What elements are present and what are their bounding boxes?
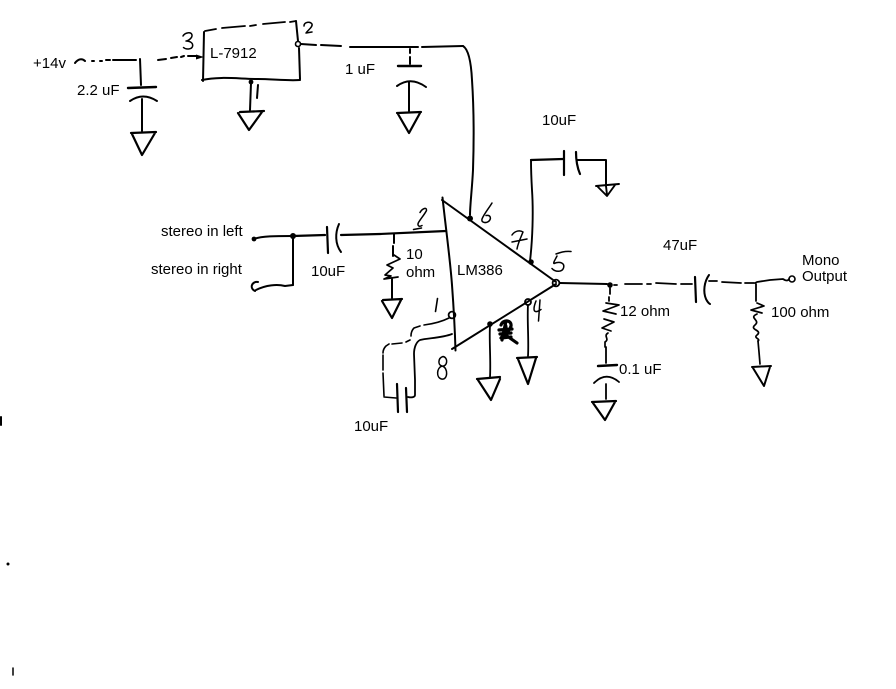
svg-text:10uF: 10uF xyxy=(311,263,345,280)
wire corner down to pin 6 of LM386 xyxy=(463,46,474,215)
resistor R3 100 ohm lead xyxy=(755,284,757,301)
capacitor 10uF (pin7 bypass) plates xyxy=(563,151,565,175)
ground for R3 xyxy=(752,366,771,386)
pin 1 handwritten label xyxy=(257,85,258,98)
capacitor 0.1uF plates xyxy=(598,365,617,366)
artifact marks xyxy=(0,417,2,425)
pin 6 handwritten label xyxy=(482,203,492,223)
junction 100ohm tap xyxy=(755,279,789,283)
svg-text:stereo in right: stereo in right xyxy=(151,261,243,278)
pin 2 handwritten label xyxy=(304,22,312,33)
junction regulator pin 1 xyxy=(249,80,254,85)
pin 3 scribbled label xyxy=(499,321,517,343)
svg-text:ohm: ohm xyxy=(406,264,435,281)
wire regulator pin 2 to corner xyxy=(301,44,463,47)
ground for pin 3 xyxy=(477,377,500,400)
wire pin7 cap left xyxy=(531,159,563,160)
wire stereo left to junction xyxy=(254,236,293,239)
junction input xyxy=(290,233,296,239)
resistor R3 lead bottom xyxy=(758,341,760,364)
terminal stereo left xyxy=(252,237,257,242)
ground for regulator pin 1 xyxy=(238,111,264,130)
op-amp U2 LM386 triangle xyxy=(442,200,556,282)
wire pin7 cap right to ground xyxy=(577,160,606,186)
terminal stereo right hook xyxy=(252,282,258,291)
pin 4 terminal circle xyxy=(525,299,531,305)
wire pin 8 to gain cap xyxy=(408,334,452,397)
pin 1 handwritten label xyxy=(436,299,438,312)
pin 7 handwritten label xyxy=(512,231,527,249)
svg-text:L-7912: L-7912 xyxy=(210,45,257,62)
svg-text:1 uF: 1 uF xyxy=(345,61,375,78)
capacitor 2.2uF lead bottom xyxy=(141,99,143,131)
resistor R1 10 ohm lead xyxy=(393,234,394,256)
capacitor 1uF plates xyxy=(398,65,421,67)
capacitor 47uF plates xyxy=(695,277,696,302)
resistor R2 lead bottom xyxy=(605,347,607,363)
svg-text:10uF: 10uF xyxy=(542,112,576,129)
ground for 0.1uF xyxy=(592,401,616,420)
wire pin 3 to ground xyxy=(489,326,492,377)
capacitor 10uF gain plates xyxy=(397,384,398,412)
wire pin 4 to ground xyxy=(527,305,530,356)
wire pin 7 up xyxy=(530,160,533,261)
wire 2.2uF junction to regulator pin 3 xyxy=(158,56,196,60)
capacitor 10uF input plates xyxy=(327,227,328,253)
pin 3 handwritten label xyxy=(183,33,193,49)
ground for 2.2uF xyxy=(131,132,156,155)
capacitor C 2.2uF lead top xyxy=(140,59,141,85)
capacitor 1uF lead stub xyxy=(409,49,411,64)
ground for 1uF xyxy=(397,112,421,133)
svg-text:12 ohm: 12 ohm xyxy=(620,303,670,320)
svg-text:Mono: Mono xyxy=(802,252,840,269)
svg-text:2.2 uF: 2.2 uF xyxy=(77,82,120,99)
regulator U1 L-7912 box xyxy=(203,32,204,81)
pin 2 terminal circle xyxy=(296,42,301,47)
ground for pin7 cap xyxy=(596,184,619,196)
wire +14v input to 2.2uF junction xyxy=(75,59,136,63)
wire right input up to junction xyxy=(292,239,294,285)
pin 3 arrowhead into regulator xyxy=(196,55,204,60)
svg-text:47uF: 47uF xyxy=(663,237,697,254)
capacitor 2.2uF plates xyxy=(128,87,156,88)
svg-text:10uF: 10uF xyxy=(354,418,388,435)
svg-text:LM386: LM386 xyxy=(457,262,503,279)
pin 8 handwritten label xyxy=(438,357,447,380)
wire pin 5 to output junction xyxy=(560,283,607,284)
svg-text:Output: Output xyxy=(802,268,848,285)
svg-text:10: 10 xyxy=(406,246,423,263)
resistor R3 squiggle xyxy=(751,303,764,341)
svg-text:100 ohm: 100 ohm xyxy=(771,304,829,321)
wire 47uF to output terminal (dashed) xyxy=(709,281,754,283)
resistor R1 squiggle xyxy=(384,255,400,279)
pin 4 handwritten label xyxy=(534,300,541,321)
svg-text:0.1 uF: 0.1 uF xyxy=(619,361,662,378)
terminal Mono output circle xyxy=(789,276,795,282)
resistor R2 12 ohm lead dashes xyxy=(609,288,610,301)
wire junction to input cap xyxy=(293,235,325,236)
wire output junction to 47uF cap (dashed) xyxy=(614,283,692,285)
junction pin 3 xyxy=(487,321,493,327)
svg-text:stereo in left: stereo in left xyxy=(161,223,244,240)
wire input cap to pin 2 xyxy=(341,231,446,235)
wire stereo right to junction xyxy=(256,285,293,290)
pin 5 terminal circle xyxy=(553,280,560,287)
junction pin 7 xyxy=(528,259,534,265)
pin 1 terminal circle xyxy=(449,312,456,319)
capacitor 1uF lead bottom xyxy=(408,82,410,111)
ground for pin 4 xyxy=(517,357,537,384)
junction output node xyxy=(607,282,613,288)
junction pin 6 xyxy=(467,216,473,222)
pin 5 handwritten label xyxy=(552,251,571,271)
ground for R1 xyxy=(382,299,402,318)
svg-text:+14v: +14v xyxy=(33,55,66,72)
pin 2 handwritten label LM386 xyxy=(414,208,427,229)
capacitor 0.1uF lead xyxy=(605,384,607,399)
wire pin 1 to gain cap xyxy=(383,318,449,398)
resistor R2 squiggle xyxy=(602,303,619,347)
resistor R1 lead bottom xyxy=(391,279,393,298)
pin 1 lead from regulator xyxy=(250,83,251,110)
